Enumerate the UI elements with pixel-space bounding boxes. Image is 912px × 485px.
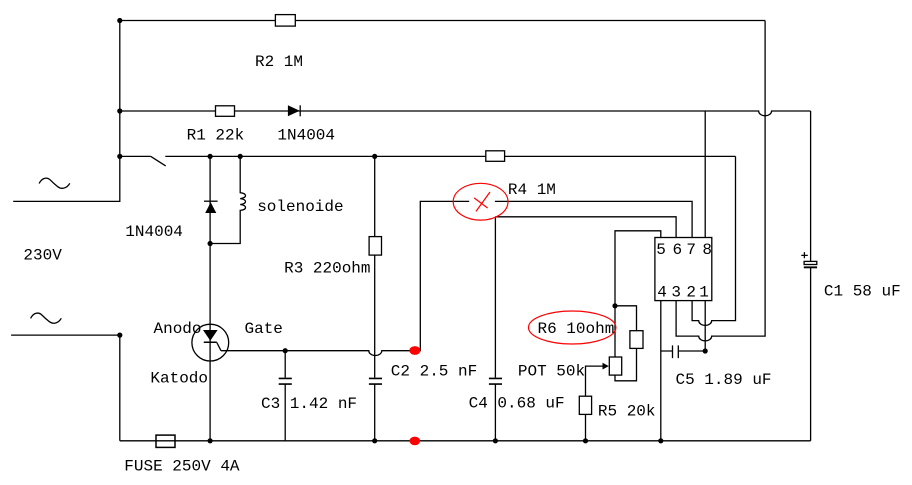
svg-text:4: 4 — [657, 283, 667, 301]
svg-text:POT 50k: POT 50k — [518, 363, 585, 381]
svg-text:R1 22k: R1 22k — [187, 126, 245, 144]
svg-text:R6 10ohm: R6 10ohm — [538, 320, 615, 338]
svg-text:R3 220ohm: R3 220ohm — [284, 259, 370, 277]
svg-text:6: 6 — [672, 241, 682, 259]
svg-text:2: 2 — [686, 283, 696, 301]
svg-text:5: 5 — [656, 241, 666, 259]
svg-text:C3 1.42 nF: C3 1.42 nF — [261, 395, 357, 413]
svg-text:1N4004: 1N4004 — [277, 126, 335, 144]
svg-text:C1 58 uF: C1 58 uF — [824, 283, 901, 301]
svg-text:7: 7 — [686, 241, 696, 259]
svg-text:3: 3 — [671, 283, 681, 301]
svg-text:FUSE 250V 4A: FUSE 250V 4A — [124, 458, 240, 476]
svg-text:C4 0.68 uF: C4 0.68 uF — [469, 394, 565, 412]
svg-text:R2 1M: R2 1M — [255, 53, 303, 71]
svg-text:230V: 230V — [23, 247, 62, 265]
svg-text:Anodo: Anodo — [154, 320, 202, 338]
svg-text:Katodo: Katodo — [150, 369, 208, 387]
svg-text:R4 1M: R4 1M — [508, 181, 556, 199]
svg-text:8: 8 — [702, 241, 712, 259]
svg-text:1: 1 — [699, 283, 709, 301]
svg-text:C2 2.5 nF: C2 2.5 nF — [391, 363, 477, 381]
svg-text:Gate: Gate — [245, 320, 283, 338]
svg-text:R5 20k: R5 20k — [598, 402, 656, 420]
svg-text:C5 1.89 uF: C5 1.89 uF — [676, 371, 772, 389]
svg-text:1N4004: 1N4004 — [125, 223, 183, 241]
svg-text:solenoide: solenoide — [257, 198, 343, 216]
